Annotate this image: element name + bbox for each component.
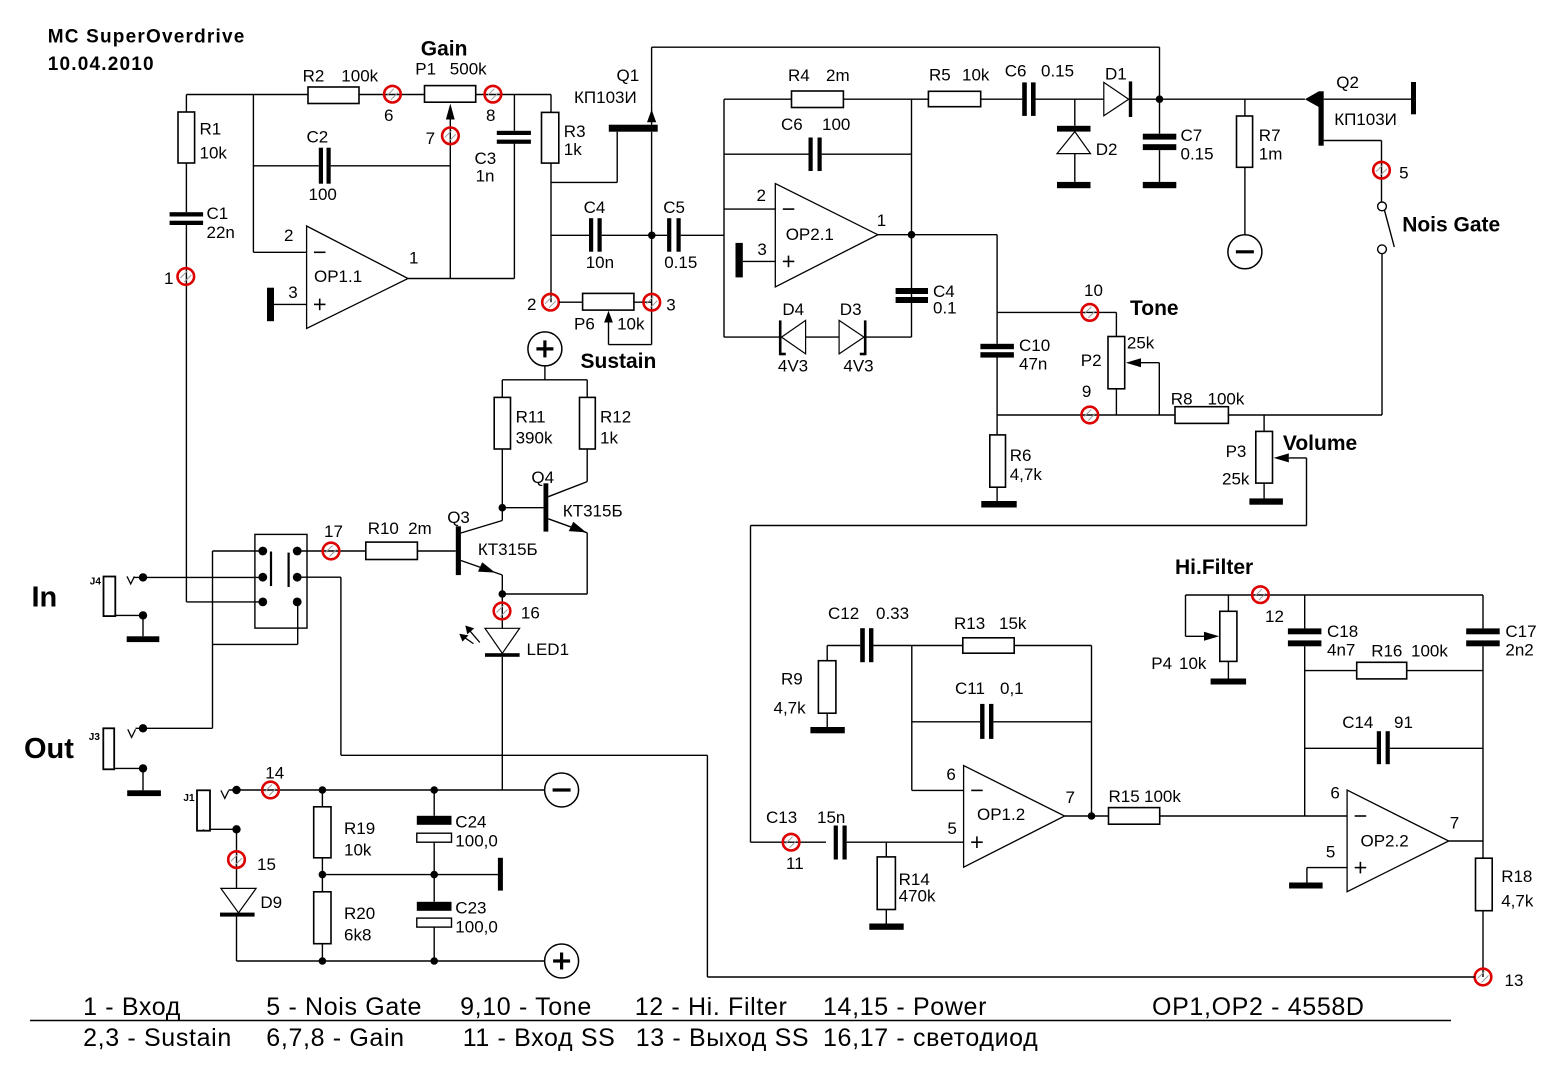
- svg-text:6k8: 6k8: [344, 926, 371, 945]
- svg-text:In: In: [32, 582, 58, 614]
- svg-text:MC SuperOverdrive: MC SuperOverdrive: [48, 27, 246, 48]
- svg-text:КТ315Б: КТ315Б: [563, 502, 623, 521]
- svg-text:6: 6: [384, 106, 393, 125]
- wire node10 row: [997, 311, 1116, 313]
- svg-text:100: 100: [822, 115, 850, 134]
- capacitor C17: [1466, 628, 1500, 634]
- svg-text:J4: J4: [90, 576, 102, 587]
- wire top rail: [652, 46, 1160, 48]
- P6 wiper: [604, 311, 613, 323]
- svg-text:R3: R3: [564, 122, 586, 141]
- node 7: [442, 128, 459, 145]
- svg-text:J1: J1: [183, 793, 195, 804]
- P1 wiper arrow: [446, 104, 455, 120]
- svg-text:15n: 15n: [817, 808, 845, 827]
- resistor R9: [818, 661, 836, 714]
- svg-text:5: 5: [1326, 843, 1335, 862]
- node 14: [262, 782, 279, 799]
- svg-text:R4: R4: [788, 66, 810, 85]
- switch block: [255, 534, 307, 628]
- svg-text:OP1,OP2 - 4558D: OP1,OP2 - 4558D: [1152, 993, 1365, 1021]
- wire op1.1 pin2: [253, 251, 306, 253]
- svg-text:Q3: Q3: [447, 508, 470, 527]
- jack J1 sleeve / node 15 / D9: [203, 829, 205, 830]
- node 8: [485, 86, 502, 103]
- svg-text:P6: P6: [574, 315, 595, 334]
- node 5: [1381, 162, 1383, 202]
- svg-text:Q1: Q1: [617, 66, 640, 85]
- resistor R16: [1305, 670, 1357, 672]
- capacitor C6 (100): [724, 153, 809, 155]
- wire op2.2 output: [1449, 840, 1483, 842]
- potentiometer P2: [1108, 337, 1125, 389]
- svg-text:C12: C12: [828, 604, 859, 623]
- svg-text:100k: 100k: [1208, 390, 1245, 409]
- power + (battery rail): [545, 944, 579, 978]
- ground: [127, 636, 160, 642]
- op-amp OP1.2: [964, 766, 1065, 868]
- svg-text:OP1.1: OP1.1: [314, 267, 362, 286]
- svg-text:14,15 - Power: 14,15 - Power: [823, 993, 987, 1021]
- svg-text:470k: 470k: [899, 887, 936, 906]
- transistor Q3: [456, 526, 461, 575]
- resistor R18: [1482, 841, 1484, 858]
- svg-text:14: 14: [265, 764, 284, 783]
- svg-text:25k: 25k: [1222, 470, 1250, 489]
- ground: [1057, 182, 1091, 188]
- svg-text:C10: C10: [1019, 336, 1050, 355]
- ground: [810, 727, 844, 733]
- svg-text:D9: D9: [260, 893, 282, 912]
- ground: [981, 501, 1016, 508]
- svg-text:3: 3: [288, 283, 297, 302]
- wire switch bottom-left input: [186, 601, 262, 603]
- svg-text:4n7: 4n7: [1327, 641, 1355, 660]
- svg-text:0.33: 0.33: [876, 604, 909, 623]
- svg-text:6: 6: [1330, 784, 1339, 803]
- svg-text:15k: 15k: [999, 614, 1027, 633]
- power - (battery rail): [545, 773, 579, 807]
- ground: [1211, 679, 1247, 685]
- resistor R6: [996, 415, 998, 435]
- svg-text:6: 6: [946, 765, 955, 784]
- P4 wiper: [1185, 595, 1187, 636]
- svg-text:3: 3: [757, 240, 766, 259]
- svg-text:7: 7: [1066, 788, 1075, 807]
- wire switch mid-right to SS return: [297, 576, 341, 578]
- svg-text:C7: C7: [1181, 126, 1203, 145]
- capacitor C6 (0.15): [1022, 82, 1027, 116]
- ground: [498, 858, 503, 891]
- svg-text:1: 1: [164, 269, 173, 288]
- svg-text:100,0: 100,0: [455, 832, 498, 851]
- wire tone column: [996, 235, 998, 344]
- svg-text:6,7,8 - Gain: 6,7,8 - Gain: [266, 1024, 404, 1052]
- svg-text:D3: D3: [840, 300, 862, 319]
- svg-text:C23: C23: [455, 899, 486, 918]
- wire: [476, 94, 551, 96]
- resistor R11: [501, 380, 503, 398]
- svg-text:R10: R10: [368, 519, 399, 538]
- svg-text:OP2.2: OP2.2: [1361, 832, 1409, 851]
- node 2: [542, 294, 559, 311]
- ground: [1289, 883, 1323, 889]
- svg-text:C3: C3: [475, 149, 497, 168]
- capacitor C11: [912, 721, 980, 723]
- zener D3: [839, 320, 864, 354]
- svg-text:100k: 100k: [1144, 787, 1181, 806]
- svg-text:C13: C13: [766, 808, 797, 827]
- node 10: [1082, 304, 1099, 321]
- node 1: [178, 268, 195, 285]
- svg-text:15: 15: [257, 855, 276, 874]
- transistor Q2: [1305, 92, 1319, 107]
- svg-text:4,7k: 4,7k: [1501, 892, 1534, 911]
- wire op2.2 pin5 ground: [1307, 867, 1347, 869]
- svg-text:OP1.2: OP1.2: [977, 805, 1025, 824]
- svg-text:C17: C17: [1505, 622, 1536, 641]
- capacitor C7: [1159, 99, 1161, 134]
- svg-text:16,17 - светодиод: 16,17 - светодиод: [823, 1024, 1038, 1052]
- potentiometer P1: [425, 86, 476, 103]
- wire mid rail to ground: [322, 874, 498, 876]
- resistor R2: [308, 87, 359, 104]
- svg-text:OP2.1: OP2.1: [786, 225, 834, 244]
- svg-text:R5: R5: [929, 66, 951, 85]
- P3 wiper: [1274, 453, 1289, 462]
- svg-text:7: 7: [1450, 814, 1459, 833]
- node 12: [1252, 586, 1269, 603]
- wire input column: [185, 225, 187, 602]
- svg-text:0.15: 0.15: [664, 253, 697, 272]
- wire op1.2 inverting column: [911, 646, 913, 791]
- svg-text:КТ315Б: КТ315Б: [478, 540, 538, 559]
- svg-text:12 - Hi. Filter: 12 - Hi. Filter: [635, 993, 788, 1021]
- svg-text:Q2: Q2: [1336, 73, 1359, 92]
- svg-text:R6: R6: [1010, 446, 1032, 465]
- resistor R14: [885, 842, 887, 857]
- svg-text:2m: 2m: [826, 66, 850, 85]
- node 6: [384, 86, 401, 103]
- svg-text:0.15: 0.15: [1041, 62, 1074, 81]
- svg-text:8: 8: [486, 106, 495, 125]
- potentiometer P4: [1227, 595, 1229, 611]
- svg-text:R16: R16: [1371, 642, 1402, 661]
- svg-text:4,7k: 4,7k: [774, 699, 807, 718]
- svg-text:4V3: 4V3: [778, 357, 808, 376]
- wire SS output rail: [707, 976, 1474, 978]
- svg-text:1n: 1n: [476, 167, 495, 186]
- capacitor C24 electrolytic: [433, 790, 435, 816]
- capacitor C4: [589, 218, 593, 252]
- node 16: [494, 603, 511, 620]
- legend: [30, 1020, 1451, 1022]
- svg-text:11: 11: [786, 854, 804, 873]
- svg-text:R11: R11: [516, 408, 546, 427]
- svg-text:10k: 10k: [1179, 654, 1207, 673]
- svg-text:D1: D1: [1105, 65, 1127, 84]
- node 9: [997, 414, 1175, 416]
- svg-text:10k: 10k: [344, 841, 372, 860]
- svg-text:P4: P4: [1151, 654, 1172, 673]
- wire op2.1 pin2: [724, 208, 775, 210]
- capacitor C14: [1305, 747, 1377, 749]
- svg-text:1k: 1k: [600, 429, 618, 448]
- wire op1.2 output: [1065, 815, 1109, 817]
- transistor Q1: [651, 47, 653, 125]
- svg-text:P2: P2: [1081, 351, 1102, 370]
- svg-text:R8: R8: [1171, 390, 1193, 409]
- svg-text:2: 2: [527, 295, 536, 314]
- svg-text:1m: 1m: [1259, 145, 1283, 164]
- op-amp OP1.1: [307, 226, 408, 328]
- ground: [127, 790, 161, 796]
- svg-text:Hi.Filter: Hi.Filter: [1175, 556, 1253, 579]
- node 13: [1475, 969, 1492, 986]
- svg-text:1: 1: [877, 211, 886, 230]
- svg-text:47n: 47n: [1019, 355, 1047, 374]
- potentiometer P6: [559, 301, 583, 303]
- svg-text:9,10 - Tone: 9,10 - Tone: [460, 993, 592, 1021]
- svg-text:5: 5: [1399, 164, 1408, 183]
- svg-text:100k: 100k: [1411, 642, 1448, 661]
- svg-text:C4: C4: [584, 198, 606, 217]
- capacitor C5: [667, 218, 671, 252]
- svg-text:P3: P3: [1226, 442, 1247, 461]
- svg-text:Nois Gate: Nois Gate: [1402, 214, 1500, 237]
- svg-text:1k: 1k: [564, 140, 582, 159]
- wire inverting column: [252, 95, 254, 253]
- svg-text:100,0: 100,0: [455, 918, 498, 937]
- svg-text:10.04.2010: 10.04.2010: [48, 54, 155, 75]
- svg-text:C11: C11: [955, 679, 985, 698]
- svg-text:7: 7: [426, 129, 435, 148]
- capacitor C23 electrolytic: [417, 902, 452, 911]
- wire volume to node11: [1306, 458, 1308, 526]
- svg-text:2m: 2m: [408, 519, 432, 538]
- ground pin3 bar: [267, 288, 274, 322]
- junction: [648, 232, 656, 240]
- capacitor C4 (0.1): [896, 288, 928, 294]
- resistor R1: [185, 95, 187, 113]
- wire C4 row: [551, 234, 589, 236]
- resistor R3: [550, 95, 552, 113]
- svg-text:C14: C14: [1342, 713, 1373, 732]
- node 17: [297, 550, 366, 552]
- wire hi.filter top rail: [1186, 594, 1484, 596]
- svg-text:R2: R2: [303, 67, 325, 86]
- svg-text:3: 3: [666, 296, 675, 315]
- op-amp OP2.1: [775, 184, 878, 287]
- resistor R20: [319, 871, 327, 879]
- wire op1.1 output: [408, 278, 514, 280]
- svg-text:12: 12: [1265, 607, 1284, 626]
- svg-text:10k: 10k: [617, 315, 645, 334]
- wire top-left rail: [186, 94, 308, 96]
- svg-text:17: 17: [324, 522, 343, 541]
- resistor R12: [586, 380, 588, 398]
- svg-text:Tone: Tone: [1130, 297, 1179, 320]
- power + sustain: [528, 332, 562, 366]
- diode D9: [221, 888, 256, 913]
- node 11: [783, 834, 800, 851]
- wire op2.1 output: [878, 234, 997, 236]
- svg-text:R18: R18: [1501, 867, 1532, 886]
- svg-text:D4: D4: [782, 300, 804, 319]
- svg-text:КП103И: КП103И: [1334, 110, 1397, 129]
- svg-text:16: 16: [521, 604, 540, 623]
- power - (R7): [1228, 235, 1262, 269]
- svg-text:4,7k: 4,7k: [1010, 465, 1043, 484]
- svg-text:11 - Вход SS: 11 - Вход SS: [463, 1024, 616, 1052]
- svg-text:10n: 10n: [586, 253, 614, 272]
- svg-text:1: 1: [409, 249, 418, 268]
- svg-text:Gain: Gain: [421, 38, 468, 61]
- svg-text:0.1: 0.1: [933, 299, 957, 318]
- ground: [1249, 498, 1283, 504]
- svg-text:100: 100: [309, 185, 337, 204]
- svg-text:C6: C6: [1005, 62, 1027, 81]
- svg-text:R7: R7: [1259, 126, 1281, 145]
- capacitor C13: [834, 826, 838, 860]
- transistor Q4: [502, 507, 543, 509]
- svg-text:1 - Вход: 1 - Вход: [83, 993, 181, 1021]
- svg-text:Volume: Volume: [1283, 432, 1357, 455]
- resistor R7: [1244, 99, 1246, 116]
- svg-text:4V3: 4V3: [843, 357, 873, 376]
- svg-text:КП103И: КП103И: [574, 88, 637, 107]
- svg-text:2: 2: [757, 186, 766, 205]
- svg-text:Sustain: Sustain: [581, 350, 657, 373]
- wire op1.2 pin6: [912, 789, 964, 791]
- svg-text:R20: R20: [344, 904, 375, 923]
- capacitor C3: [513, 95, 515, 131]
- svg-text:C18: C18: [1327, 622, 1358, 641]
- P2 wiper: [1126, 358, 1141, 367]
- svg-text:R15: R15: [1109, 787, 1140, 806]
- node junction R11/Q3/Q4: [499, 504, 507, 512]
- capacitor C12: [827, 645, 860, 647]
- diode D2: [1074, 99, 1076, 126]
- wire op2.1 inverting column: [723, 99, 725, 337]
- svg-text:0,1: 0,1: [1000, 679, 1024, 698]
- svg-text:C6: C6: [781, 115, 803, 134]
- resistor R4: [724, 98, 792, 100]
- svg-text:2n2: 2n2: [1505, 641, 1533, 660]
- ground: [869, 924, 903, 930]
- svg-text:13: 13: [1505, 971, 1524, 990]
- svg-text:C5: C5: [663, 198, 685, 217]
- capacitor C1: [170, 212, 204, 216]
- svg-text:P1: P1: [415, 60, 436, 79]
- capacitor C18: [1304, 595, 1306, 628]
- svg-text:Q4: Q4: [531, 468, 554, 487]
- LED1: [485, 628, 520, 653]
- svg-text:R13: R13: [954, 614, 985, 633]
- wire op1.2 feedback column: [1091, 646, 1093, 817]
- svg-text:10k: 10k: [962, 66, 990, 85]
- node 3: [644, 294, 661, 311]
- svg-text:390k: 390k: [516, 429, 553, 448]
- svg-text:LED1: LED1: [527, 640, 570, 659]
- svg-text:J3: J3: [89, 732, 101, 743]
- svg-text:2: 2: [284, 226, 293, 245]
- resistor R10: [366, 542, 418, 559]
- svg-text:2,3 - Sustain: 2,3 - Sustain: [83, 1024, 232, 1052]
- svg-text:13 - Выход SS: 13 - Выход SS: [636, 1024, 810, 1052]
- svg-text:C1: C1: [207, 204, 229, 223]
- switch Nois Gate: [1378, 202, 1387, 211]
- capacitor C2: [319, 148, 323, 184]
- svg-text:10k: 10k: [200, 144, 228, 163]
- wire C2 row: [253, 165, 318, 167]
- svg-text:9: 9: [1082, 382, 1091, 401]
- svg-text:5: 5: [947, 819, 956, 838]
- svg-text:C2: C2: [307, 128, 329, 147]
- svg-text:500k: 500k: [450, 60, 487, 79]
- svg-text:R12: R12: [600, 408, 631, 427]
- svg-text:Out: Out: [24, 733, 74, 765]
- wire switch left-top loop: [213, 550, 263, 552]
- potentiometer P3: [1263, 415, 1265, 431]
- svg-text:22n: 22n: [207, 223, 235, 242]
- capacitor C10: [980, 344, 1014, 349]
- svg-text:100k: 100k: [341, 67, 378, 86]
- resistor R19: [321, 790, 323, 807]
- svg-text:R1: R1: [200, 120, 222, 139]
- svg-text:91: 91: [1394, 713, 1413, 732]
- svg-text:C24: C24: [455, 813, 486, 832]
- svg-text:0.15: 0.15: [1181, 145, 1214, 164]
- op-amp OP2.2: [1347, 790, 1449, 892]
- svg-text:R19: R19: [344, 819, 375, 838]
- svg-text:R9: R9: [781, 670, 803, 689]
- svg-text:25k: 25k: [1127, 334, 1155, 353]
- ground: [1143, 182, 1177, 188]
- wire: [359, 94, 425, 96]
- resistor R5: [912, 98, 929, 100]
- diode D1: [1104, 82, 1129, 115]
- svg-text:10: 10: [1084, 281, 1103, 300]
- resistor R13: [912, 645, 963, 647]
- svg-text:5 - Nois Gate: 5 - Nois Gate: [266, 993, 422, 1021]
- resistor R8: [1175, 407, 1228, 424]
- svg-text:D2: D2: [1096, 140, 1118, 159]
- zener D4: [724, 336, 782, 338]
- wire R11/R12 supply rail: [502, 379, 587, 381]
- ground op2.1 pin3 bar: [736, 243, 743, 278]
- node 16 junction: [499, 590, 507, 598]
- resistor R15: [1109, 808, 1160, 825]
